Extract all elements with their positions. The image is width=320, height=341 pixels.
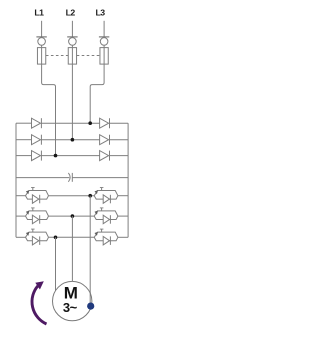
motor M1 circle (52, 281, 91, 320)
inverter row 6 wires (16, 236, 128, 238)
rotation arrowhead (35, 281, 44, 289)
inverter row 5 wires (16, 215, 128, 217)
diode V3 (row3 left) (32, 151, 42, 161)
capacitor C1 straight plate (71, 173, 73, 182)
node L1-row3 junction dot (54, 154, 58, 158)
svg-text:L1: L1 (34, 8, 44, 18)
switch+fuse Q1 (phase L1) (36, 21, 46, 64)
IGBT T2 (row5 left) (26, 208, 49, 224)
rotation arrow (purple arc) (32, 286, 47, 324)
wire L3 feed (bend left, down to row1) (90, 64, 104, 123)
IGBT T1 (row4 left) (26, 188, 49, 204)
IGBT T6 (row6 right) (94, 229, 118, 245)
wire phase W continuation to terminal (89, 292, 91, 306)
diode V6 (row3 right) (100, 151, 110, 161)
IGBT T3 (row6 left) (26, 229, 49, 245)
capacitor C1 (DC link, curved plate) (68, 173, 70, 182)
switch+fuse Q2 (phase L2) (67, 21, 77, 64)
node L3-row1 junction dot (88, 121, 92, 125)
rectifier row 2 wires (16, 139, 128, 141)
svg-text:L3: L3 (96, 8, 106, 18)
diode V4 (row1 right) (100, 118, 110, 128)
switch+fuse Q3 (phase L3) (99, 21, 109, 64)
node row6 output tap dot (54, 236, 58, 240)
rectifier row 1 wires (16, 122, 128, 124)
IGBT T5 (row5 right) (94, 208, 118, 224)
blue terminal dot (87, 303, 94, 310)
left DC bus (15, 123, 17, 237)
node row5 output tap dot (71, 214, 75, 218)
IGBT T4 (row4 right) (94, 188, 118, 204)
node row4 output tap dot (88, 194, 92, 198)
node L2-row2 junction dot (71, 138, 75, 142)
wire motor phase U (from row6 tap) (55, 237, 57, 294)
wire motor phase V (from row5 tap) (71, 216, 73, 294)
DC link wire (16, 177, 128, 179)
rectifier row 3 wires (16, 155, 128, 157)
diode V1 (row1 left) (32, 118, 42, 128)
wire motor phase W (from row4 tap) (89, 196, 91, 294)
right DC bus (127, 123, 129, 237)
diode V5 (row2 right) (100, 135, 110, 145)
svg-text:3~: 3~ (63, 300, 78, 315)
wire L1 feed (bend right, down to row3) (42, 64, 56, 156)
wire L2 feed (straight down to row2) (71, 64, 73, 140)
diode V2 (row2 left) (32, 135, 42, 145)
fuse linkage dashed line 1 (46, 55, 68, 57)
inverter row 4 wires (16, 195, 128, 197)
svg-text:L2: L2 (66, 8, 76, 18)
fuse linkage dashed line 2 (77, 55, 100, 57)
